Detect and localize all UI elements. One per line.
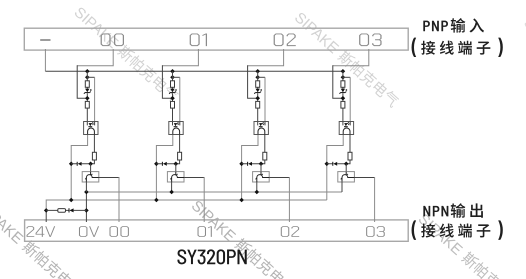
wire base ch1	[175, 164, 177, 172]
node base junction E2	[259, 162, 264, 167]
zener diode Z1	[170, 89, 174, 93]
node junction D2	[239, 162, 244, 167]
resistor R0c	[92, 152, 96, 160]
resistor R0b	[85, 101, 89, 108]
wire LED cathode branch ch3	[343, 76, 350, 78]
wire input terminal 00 drop	[77, 49, 113, 66]
wire base ch0	[90, 164, 92, 172]
wire base ch2	[260, 164, 262, 172]
PNP input terminal block	[24, 28, 408, 50]
node junction C3	[341, 96, 346, 101]
top terminal label 03	[359, 33, 381, 46]
resistor R1c	[178, 152, 182, 160]
wire resistor to base node ch2	[261, 160, 265, 164]
wire LED cathode branch ch2	[258, 76, 265, 78]
top terminal label 00	[101, 33, 124, 46]
0V vertical wire	[85, 192, 87, 222]
wire opto collector to 24V rail ch1	[156, 135, 172, 200]
node base junction E0	[88, 162, 93, 167]
diode D0	[71, 163, 90, 165]
bottom terminal label 0V	[79, 226, 99, 237]
watermark 3	[0, 199, 85, 279]
24V terminal drop wire	[45, 210, 47, 222]
emitter bus wire (0V)	[86, 191, 342, 193]
wire opto collector to 24V rail ch0	[71, 135, 87, 200]
wire center column ch2	[257, 71, 259, 121]
watermark 2	[291, 9, 401, 110]
optocoupler U2 box	[254, 122, 268, 135]
diode D1	[156, 163, 175, 165]
wire input terminal 03 drop	[333, 49, 369, 66]
optocoupler U1 box	[169, 122, 183, 135]
node junction B1	[170, 75, 175, 80]
watermark 5	[415, 211, 525, 279]
label (terminal block) top	[412, 38, 503, 57]
node base junction E1	[174, 162, 179, 167]
node junction C0	[85, 96, 90, 101]
wire collector to output 03	[354, 177, 374, 179]
node input junction A1	[170, 69, 175, 74]
wire opto emitter ch3	[349, 134, 351, 152]
wire emitter ch3	[341, 181, 343, 192]
transistor Q3 symbol	[342, 172, 354, 182]
watermark 4	[188, 197, 298, 279]
node junction B3	[341, 75, 346, 80]
node junction D1	[154, 162, 159, 167]
top terminal label 02	[274, 33, 296, 46]
label PNP input	[423, 18, 484, 32]
minus bus wire	[45, 70, 343, 72]
optocoupler U1 phototransistor arc	[173, 128, 180, 135]
zener diode Z3	[341, 89, 345, 93]
optocoupler U2 LED	[258, 122, 265, 126]
wire emitter ch0	[85, 181, 87, 192]
optocoupler U0 box	[84, 122, 98, 135]
node 24V rail junction G0	[69, 198, 74, 203]
wire base ch3	[345, 164, 347, 172]
transistor Q0 symbol	[86, 172, 98, 182]
wire emitter ch2	[256, 181, 258, 192]
wire opto emitter ch0	[93, 134, 95, 152]
bottom terminal label 00	[109, 226, 128, 237]
bottom terminal label 01	[198, 226, 212, 237]
optocoupler U0 LED	[87, 122, 94, 126]
resistor R3b	[341, 101, 345, 108]
node 24V rail junction G2	[239, 198, 244, 203]
wire collector to output 02	[269, 177, 289, 179]
diode D3	[327, 163, 346, 165]
optocoupler U3 box	[339, 122, 353, 135]
node junction 0V-bus3	[84, 208, 89, 213]
node junction B2	[255, 75, 260, 80]
wire collector to output 00	[99, 177, 119, 179]
node junction D0	[69, 162, 74, 167]
fuse F1	[58, 209, 66, 213]
node 24V rail junction G1	[154, 198, 159, 203]
wire input terminal 02 drop	[248, 49, 284, 66]
resistor R2c	[263, 152, 267, 160]
node base junction E3	[344, 162, 349, 167]
node input junction A0	[85, 69, 90, 74]
watermark 1	[71, 4, 181, 105]
wire center column ch0	[86, 71, 88, 121]
transistor Q1 box	[167, 172, 184, 182]
wire input terminal 01 drop	[162, 49, 198, 66]
resistor R2a	[256, 81, 260, 88]
wire LED cathode branch ch0	[87, 76, 94, 78]
wire minus terminal drop	[44, 49, 46, 71]
resistor R1a	[171, 81, 175, 88]
node emitter junction F1	[169, 190, 174, 195]
transistor Q2 box	[253, 172, 270, 182]
resistor R0a	[85, 81, 89, 88]
wire collector to output 01	[184, 177, 204, 179]
zener diode Z2	[256, 89, 260, 93]
diode D2	[242, 163, 261, 165]
wire opto collector to 24V rail ch3	[327, 135, 343, 200]
bottom terminal label 24V	[26, 226, 55, 237]
zener diode Z0	[85, 89, 89, 93]
watermark 6	[520, 14, 526, 115]
optocoupler U0 phototransistor arc	[88, 128, 95, 135]
transistor Q0 box	[82, 172, 99, 182]
wire LED cathode branch ch1	[173, 76, 180, 78]
wire opto collector to 24V rail ch2	[242, 135, 258, 200]
wire opto emitter ch1	[179, 134, 181, 152]
label NPN output	[423, 203, 483, 218]
transistor Q2 symbol	[257, 172, 269, 182]
protection line wire	[46, 209, 86, 211]
optocoupler U2 phototransistor arc	[258, 128, 265, 135]
top terminal label 01	[190, 33, 207, 46]
node junction C1	[170, 96, 175, 101]
bottom terminal label 02	[281, 226, 299, 237]
wire center column ch1	[172, 71, 174, 121]
label (terminal block) bottom	[412, 220, 503, 239]
bottom terminal label 03	[366, 226, 385, 237]
wire resistor to base node ch3	[346, 160, 350, 164]
node junction D3	[325, 162, 330, 167]
wire resistor to base node ch1	[176, 160, 180, 164]
wire resistor to base node ch0	[91, 160, 95, 164]
node emitter junction F2	[255, 190, 260, 195]
wire emitter ch1	[171, 181, 173, 192]
node input junction A3	[341, 69, 346, 74]
node junction 0V-bus1	[84, 190, 89, 195]
resistor R1b	[171, 101, 175, 108]
wire opto emitter ch2	[264, 134, 266, 152]
node junction 24V	[44, 208, 49, 213]
resistor R3a	[341, 81, 345, 88]
node junction C2	[255, 96, 260, 101]
resistor R3c	[348, 152, 352, 160]
module name SY320PN	[177, 249, 246, 264]
optocoupler U3 LED	[343, 122, 350, 126]
diode D5	[69, 208, 73, 212]
wire center column ch3	[342, 71, 344, 121]
transistor Q3 box	[338, 172, 355, 182]
resistor R2b	[256, 101, 260, 108]
transistor Q1 symbol	[172, 172, 184, 182]
24V bus wire	[46, 200, 327, 210]
terminal label minus	[40, 39, 50, 41]
NPN output terminal block	[25, 220, 409, 241]
optocoupler U3 phototransistor arc	[343, 128, 350, 135]
node input junction A2	[255, 69, 260, 74]
optocoupler U1 LED	[173, 122, 180, 126]
node junction B0	[85, 75, 90, 80]
